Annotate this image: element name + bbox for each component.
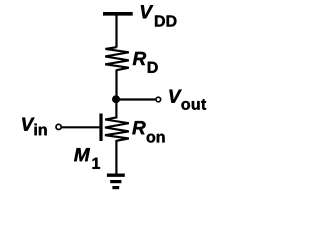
resistor Ron (channel of M1) xyxy=(105,117,129,140)
resistor RD xyxy=(105,47,129,70)
label M1 xyxy=(74,148,100,169)
VDD supply bar xyxy=(103,12,133,16)
gate wire xyxy=(62,126,100,128)
wire Ron to ground xyxy=(115,140,117,174)
label VDD xyxy=(141,5,177,26)
label Ron xyxy=(132,121,164,142)
ground xyxy=(107,175,125,187)
node drain junction xyxy=(112,95,120,103)
wire VDD bar to RD xyxy=(115,14,117,48)
terminal Vout xyxy=(156,97,161,102)
wire RD to node xyxy=(115,70,117,101)
label RD xyxy=(133,52,158,73)
wire node to Vout terminal xyxy=(116,98,156,100)
transistor M1 gate bar xyxy=(99,114,102,142)
wire node to Ron xyxy=(115,100,117,119)
label Vout xyxy=(169,90,206,110)
terminal Vin xyxy=(56,124,61,129)
label Vin xyxy=(22,118,46,136)
